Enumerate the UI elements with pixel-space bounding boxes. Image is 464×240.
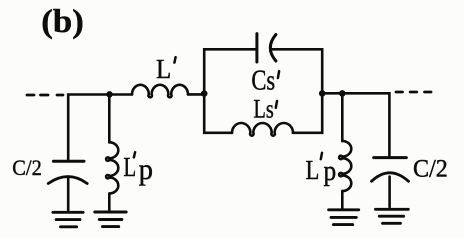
svg-text:Ls: Ls (253, 94, 273, 124)
svg-text:C/2: C/2 (12, 155, 42, 180)
svg-text:L: L (123, 152, 136, 182)
svg-text:(b): (b) (41, 4, 83, 40)
svg-text:p: p (139, 153, 153, 186)
svg-text:L: L (306, 155, 320, 185)
svg-text:p: p (324, 155, 337, 187)
svg-text:C/2: C/2 (413, 155, 448, 182)
svg-text:Cs: Cs (251, 66, 275, 97)
svg-text:L: L (156, 54, 171, 84)
